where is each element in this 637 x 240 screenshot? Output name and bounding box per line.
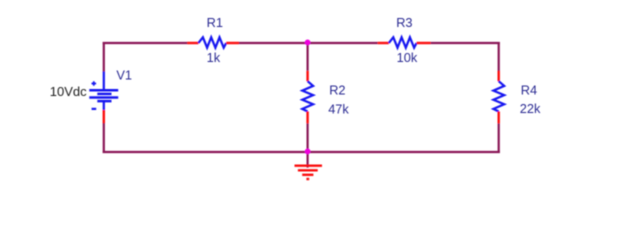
node junction dot top (R1/R2/R3 net) [305,40,311,46]
resistor R4 [493,71,504,124]
resistor R3 [378,37,431,47]
ground symbol 0 [295,166,323,179]
svg-text:R4: R4 [521,82,537,97]
svg-text:R3: R3 [396,15,412,30]
wire top right segment [431,42,500,44]
svg-text:V1: V1 [116,68,132,83]
svg-text:47k: 47k [328,102,349,117]
wire bottom left segment [103,151,308,153]
wire bottom right segment [308,151,500,153]
wire top middle segment (node to R3) [308,42,378,44]
svg-text:R1: R1 [207,15,223,30]
svg-text:10k: 10k [397,50,418,65]
wire top left segment [103,42,188,44]
svg-text:10Vdc: 10Vdc [50,84,87,99]
wire top middle segment (R1 to node) [239,42,308,44]
svg-text:1k: 1k [207,50,221,65]
svg-text:22k: 22k [520,101,541,116]
wire right vertical lower [498,123,500,153]
node junction dot bottom (ground net) [305,149,311,155]
wire middle vertical upper (node to R2) [307,43,309,71]
wire left vertical lower [103,123,105,153]
wire right vertical upper [498,42,500,71]
dc voltage source V1 [89,72,118,124]
svg-text:R2: R2 [329,82,345,97]
resistor R1 [187,37,239,47]
wire middle vertical lower (R2 to bottom) [307,123,309,152]
wire ground stub [307,152,309,168]
resistor R2 [302,71,313,124]
wire left vertical upper [103,42,105,72]
